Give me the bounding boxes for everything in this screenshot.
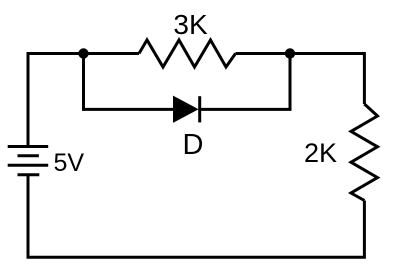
diode D (anode triangle) bbox=[174, 97, 198, 123]
battery 5V: short plate 2 bbox=[18, 154, 39, 157]
diode D cathode bar bbox=[198, 96, 201, 122]
wire: 2K bottom lead down, across bottom, up to battery negative bbox=[28, 175, 364, 257]
svg-text:2K: 2K bbox=[304, 138, 337, 168]
svg-text:5V: 5V bbox=[54, 149, 85, 177]
wire: node A down to diode anode (left part of diode branch) bbox=[84, 54, 174, 110]
battery 5V: long plate 3 bbox=[8, 164, 49, 167]
node B (junction dot, top right) bbox=[285, 48, 295, 58]
wire: diode cathode to right, up to node B bbox=[200, 54, 290, 110]
svg-text:D: D bbox=[183, 129, 204, 161]
svg-text:3K: 3K bbox=[173, 9, 208, 40]
wire: battery positive up left side to top-left corner, across to node A bbox=[28, 54, 84, 147]
resistor 3K (top, horizontal zigzag) bbox=[139, 40, 236, 67]
wire: node B across top-right corner down to 2K resistor top lead bbox=[290, 54, 364, 105]
wire: 3K resistor right lead to node B bbox=[236, 52, 291, 55]
node A (junction dot, top left) bbox=[78, 48, 88, 58]
battery 5V: positive long plate (top) bbox=[8, 145, 49, 148]
wire: node A to 3K resistor left lead bbox=[84, 52, 140, 55]
battery 5V: negative short plate (bottom) bbox=[18, 173, 40, 176]
resistor 2K (right, vertical zigzag) bbox=[351, 104, 378, 201]
